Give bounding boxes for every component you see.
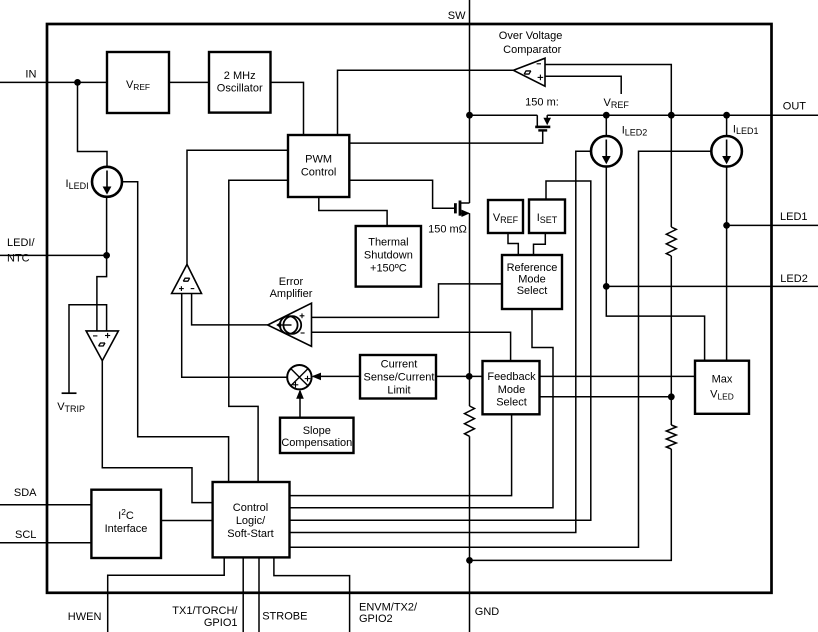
wire current sense to feedback mode select xyxy=(436,375,483,377)
svg-text:VREF: VREF xyxy=(126,79,150,92)
svg-text:Slope: Slope xyxy=(303,425,331,437)
wire control logic to HWEN pin xyxy=(108,557,225,632)
wire feedback mode select to max VLED select xyxy=(540,375,696,377)
block Control Logic/Soft-Start xyxy=(213,482,290,557)
current source ILED1 xyxy=(711,136,742,167)
pin SW wire (switch node vertical) xyxy=(469,0,471,203)
terminal VTRIP xyxy=(62,392,77,394)
svg-text:LED2: LED2 xyxy=(780,273,808,285)
svg-text:150 mΩ: 150 mΩ xyxy=(428,223,467,235)
wire OUT to ILED1 xyxy=(726,115,728,136)
svg-text:GPIO1: GPIO1 xyxy=(204,617,238,629)
wire comparator U2 output to control logic xyxy=(102,361,212,503)
pin LED2 wire xyxy=(606,285,818,287)
wire VTRIP reference to comparator + input xyxy=(69,305,107,394)
chip boundary xyxy=(47,24,772,593)
svg-text:Mode: Mode xyxy=(518,273,546,285)
pin IN wire xyxy=(0,81,107,83)
svg-text:IN: IN xyxy=(25,68,36,80)
svg-text:Control: Control xyxy=(233,502,268,514)
pin SDA wire xyxy=(0,504,91,506)
wire control logic to feedback mode select xyxy=(290,414,512,495)
svg-text:NTC: NTC xyxy=(7,253,30,265)
svg-text:Comparator: Comparator xyxy=(503,44,561,56)
wire ISET block to reference mode select xyxy=(534,233,546,255)
wire divider bottom to GND xyxy=(470,449,672,560)
svg-text:Select: Select xyxy=(496,397,527,409)
svg-text:ISET: ISET xyxy=(537,212,558,225)
svg-text:VLED: VLED xyxy=(710,389,734,402)
op-amp U4 Error Amplifier xyxy=(268,303,312,346)
node OUT/ILED2 junction xyxy=(603,112,610,119)
svg-text:Current: Current xyxy=(381,358,418,370)
svg-text:SCL: SCL xyxy=(15,529,36,541)
wire VREF block to reference mode select xyxy=(508,233,518,255)
block Thermal Shutdown +150C xyxy=(356,226,421,287)
svg-text:SDA: SDA xyxy=(14,487,37,499)
transistor Q1 PMOS 150 m: (synchronous rectifier) xyxy=(536,115,538,127)
block PWM Control xyxy=(288,135,349,197)
wire current sense to summing node (arrow) xyxy=(313,375,360,377)
svg-text:Compensation: Compensation xyxy=(281,437,352,449)
svg-text:Amplifier: Amplifier xyxy=(270,288,313,300)
block VREF (reference select input) xyxy=(488,200,523,233)
wire OUT to ILED2 xyxy=(605,115,607,136)
pin LEDI/NTC wire xyxy=(0,254,107,256)
wire feedback mode select to divider tap xyxy=(540,396,672,398)
block Reference Mode Select xyxy=(502,255,562,309)
wire control logic to STROBE pin xyxy=(258,557,260,632)
node GND junction xyxy=(466,557,473,564)
svg-text:Shutdown: Shutdown xyxy=(364,250,413,262)
wire ILED2 to LED2 node and max VLED select xyxy=(606,167,704,361)
pin SCL wire xyxy=(0,542,91,544)
svg-text:PWM: PWM xyxy=(305,154,332,166)
svg-text:Oscillator: Oscillator xyxy=(217,83,263,95)
block Feedback Mode Select xyxy=(483,361,540,414)
svg-text:Feedback: Feedback xyxy=(487,371,536,383)
svg-text:Max: Max xyxy=(712,373,733,385)
node LED1 junction xyxy=(723,222,730,229)
wire over voltage comparator - input from OUT xyxy=(545,65,671,116)
wire control logic to current source ILED2 xyxy=(290,151,592,532)
block ISET xyxy=(529,200,565,234)
svg-text:Select: Select xyxy=(517,285,548,297)
svg-text:Mode: Mode xyxy=(498,384,526,396)
svg-text:Error: Error xyxy=(279,276,304,288)
svg-text:GND: GND xyxy=(475,606,500,618)
wire ILED1 to LED1 node and max VLED select xyxy=(726,167,728,361)
comparator U3 (PWM comparator, with hysteresis) xyxy=(172,264,202,293)
svg-text:ILED2: ILED2 xyxy=(622,125,648,138)
svg-text:Over Voltage: Over Voltage xyxy=(499,30,563,42)
svg-text:LEDI/: LEDI/ xyxy=(7,237,35,249)
wire ILEDI output to control logic xyxy=(122,182,229,482)
block Max VLED xyxy=(695,361,749,414)
svg-text:Logic/: Logic/ xyxy=(236,515,266,527)
wire comparator U3 output to PWM control xyxy=(187,150,288,264)
wire control logic to ENVM/TX2/GPIO2 pin xyxy=(274,557,350,632)
wire slope compensation to summing node (arrow) xyxy=(299,391,301,418)
wire over voltage comparator + input from VREF xyxy=(545,76,621,94)
wire control logic to reference mode select xyxy=(290,309,554,508)
node SW/OUT-row junction xyxy=(466,112,473,119)
block Current Sense/Current Limit xyxy=(360,355,436,399)
svg-text:LED1: LED1 xyxy=(780,211,808,223)
svg-text:ILED1: ILED1 xyxy=(733,123,759,136)
wire PWM control to thermal shutdown xyxy=(319,197,387,226)
svg-text:STROBE: STROBE xyxy=(262,610,307,622)
wire control logic to ISET block xyxy=(290,181,591,520)
comparator U1 Over Voltage Comparator xyxy=(514,58,546,86)
wire error amplifier - input from feedback mode select xyxy=(312,332,511,361)
summing node (current sense summer) xyxy=(287,365,311,389)
wire PMOS gate to PWM control xyxy=(349,130,542,143)
node OUT/ILED1 junction xyxy=(723,112,730,119)
svg-text:TX1/TORCH/: TX1/TORCH/ xyxy=(172,605,238,617)
node OUT/divider junction xyxy=(668,112,675,119)
svg-text:VTRIP: VTRIP xyxy=(57,401,85,414)
svg-text:HWEN: HWEN xyxy=(68,611,102,623)
svg-text:150 m:: 150 m: xyxy=(525,96,559,108)
wire divider middle xyxy=(670,256,672,425)
resistor R3 (OVP divider bottom) xyxy=(666,425,676,449)
wire NMOS source to sense resistor xyxy=(469,213,471,406)
svg-text:ENVM/TX2/: ENVM/TX2/ xyxy=(359,601,418,613)
pin LED1 wire xyxy=(727,224,818,226)
svg-text:Control: Control xyxy=(301,167,336,179)
resistor R2 (OVP divider top) xyxy=(666,227,676,256)
wire VREF to oscillator xyxy=(169,81,209,83)
wire PWM control to control logic xyxy=(229,180,288,482)
node current sense / SW junction xyxy=(466,373,473,380)
wire I2C interface to control logic xyxy=(161,520,213,522)
node IN junction xyxy=(74,79,81,86)
svg-text:VREF: VREF xyxy=(604,97,630,110)
svg-text:Limit: Limit xyxy=(387,384,410,396)
transistor Q2 NMOS switch 150 mOhm xyxy=(459,201,462,216)
wire NMOS gate to PWM control xyxy=(349,180,455,208)
svg-text:OUT: OUT xyxy=(783,101,807,113)
wire error amplifier + input from reference mode select xyxy=(312,284,502,318)
node LED2 junction xyxy=(603,283,610,290)
svg-text:2 MHz: 2 MHz xyxy=(224,70,256,82)
wire control logic to current source ILED1 xyxy=(290,151,712,547)
block 2 MHz Oscillator xyxy=(209,52,271,113)
wire ILEDI to LEDI/NTC node and comparator xyxy=(97,197,107,331)
node divider tap junction xyxy=(668,393,675,400)
svg-text:VREF: VREF xyxy=(493,212,519,225)
wire control logic to TX1/TORCH/GPIO1 pin xyxy=(242,557,244,632)
wire oscillator to PWM control xyxy=(271,82,304,135)
block Slope Compensation xyxy=(280,418,354,453)
block VREF xyxy=(107,52,169,113)
wire error amplifier output to comparator U3 - input xyxy=(192,294,268,325)
svg-text:Thermal: Thermal xyxy=(368,237,408,249)
pin OUT wire (right segment) xyxy=(547,114,818,116)
block I2C Interface xyxy=(91,490,161,558)
pin OUT wire (left segment to PMOS) xyxy=(470,114,538,116)
wire over voltage comparator output to PWM control xyxy=(338,70,514,135)
svg-text:+150ºC: +150ºC xyxy=(370,263,407,275)
wire IN to current source ILEDI xyxy=(78,82,108,167)
svg-text:Sense/Current: Sense/Current xyxy=(364,371,435,383)
wire multiplier output to comparator U3 + input xyxy=(182,294,288,378)
wire OUT to divider resistor R2 xyxy=(670,115,672,227)
svg-text:Interface: Interface xyxy=(105,523,148,535)
svg-text:Soft-Start: Soft-Start xyxy=(227,528,273,540)
svg-text:SW: SW xyxy=(448,10,466,22)
current source ILEDI xyxy=(92,167,122,197)
node LEDI/NTC junction xyxy=(103,252,110,259)
wire sense resistor to GND xyxy=(469,436,471,632)
svg-text:ILEDI: ILEDI xyxy=(66,178,89,191)
resistor R1 (current sense) xyxy=(465,406,475,436)
svg-text:Reference: Reference xyxy=(507,262,558,274)
comparator U2 (NTC trip, with hysteresis) xyxy=(86,331,118,361)
current source ILED2 xyxy=(591,136,622,167)
svg-text:GPIO2: GPIO2 xyxy=(359,613,393,625)
svg-text:I2C: I2C xyxy=(118,507,134,522)
